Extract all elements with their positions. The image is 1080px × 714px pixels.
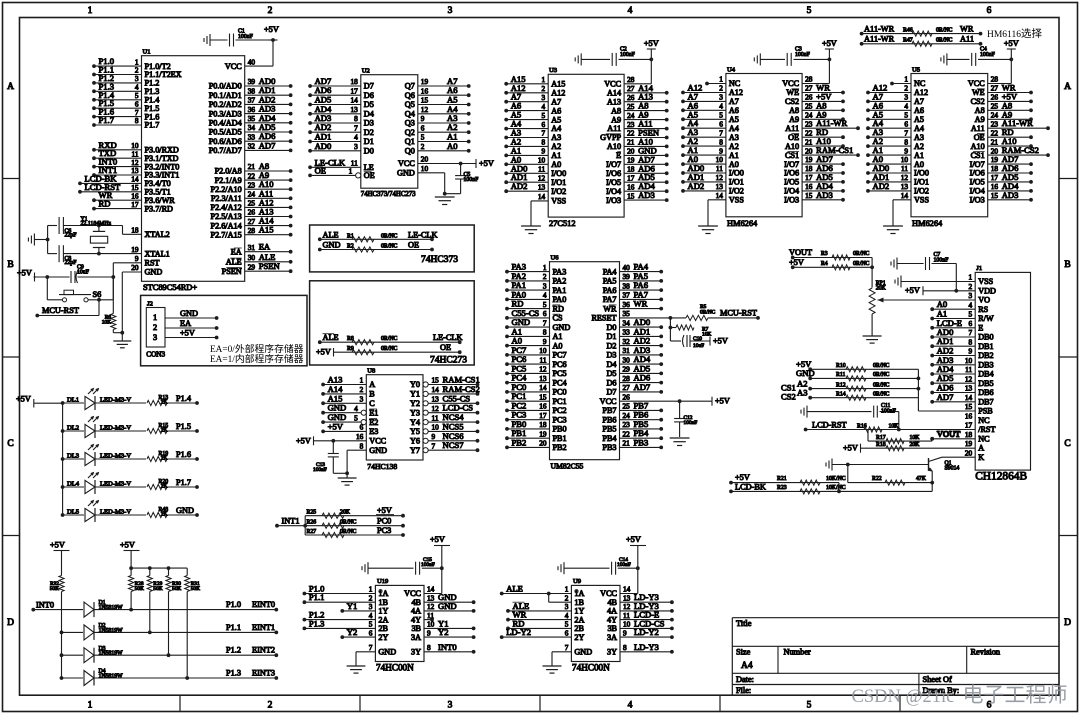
svg-text:16: 16 (539, 402, 547, 411)
svg-text:DB2: DB2 (978, 351, 993, 360)
svg-text:VCC: VCC (398, 159, 415, 168)
svg-text:1Y: 1Y (378, 607, 388, 616)
svg-text:I/O7: I/O7 (606, 160, 621, 169)
svg-text:WR: WR (960, 24, 974, 33)
svg-text:27: 27 (623, 383, 631, 392)
svg-text:34: 34 (248, 123, 256, 132)
svg-text:A0: A0 (447, 141, 458, 151)
svg-text:4: 4 (628, 6, 633, 16)
svg-text:GND: GND (574, 648, 592, 657)
svg-text:74HC373: 74HC373 (421, 255, 458, 265)
svg-text:6: 6 (904, 120, 908, 129)
svg-text:AD0: AD0 (315, 141, 332, 151)
svg-text:26: 26 (805, 93, 813, 102)
svg-text:12: 12 (965, 374, 973, 383)
svg-text:R22: R22 (872, 476, 882, 482)
svg-text:14: 14 (538, 192, 546, 201)
svg-text:0R/NC: 0R/NC (936, 27, 953, 33)
svg-text:S9014: S9014 (945, 466, 960, 472)
svg-text:EINT2: EINT2 (252, 646, 275, 655)
svg-text:2: 2 (904, 84, 908, 93)
svg-text:P0.6/AD6: P0.6/AD6 (209, 137, 242, 146)
svg-text:8: 8 (360, 441, 364, 450)
svg-text:R46: R46 (903, 27, 913, 33)
svg-text:100nF: 100nF (617, 562, 631, 568)
svg-text:P1.1: P1.1 (309, 592, 325, 602)
svg-text:AD7: AD7 (259, 140, 276, 150)
svg-text:P1.5: P1.5 (176, 422, 191, 431)
svg-text:+5V: +5V (17, 268, 32, 277)
svg-text:CS: CS (553, 314, 563, 323)
svg-text:Y2: Y2 (438, 627, 449, 637)
svg-text:7: 7 (354, 123, 358, 132)
svg-text:17: 17 (627, 173, 635, 182)
svg-text:4Y: 4Y (607, 615, 617, 624)
svg-text:MCU-RST: MCU-RST (42, 306, 79, 315)
svg-text:10: 10 (432, 423, 440, 432)
svg-text:A11: A11 (785, 124, 799, 133)
svg-text:7: 7 (565, 643, 569, 652)
svg-text:0R/NC: 0R/NC (381, 244, 398, 250)
svg-text:20: 20 (805, 146, 813, 155)
svg-text:4: 4 (543, 291, 547, 300)
svg-text:0R/NC: 0R/NC (340, 520, 357, 526)
svg-text:CS2: CS2 (781, 392, 796, 402)
svg-text:3: 3 (360, 395, 364, 404)
svg-text:23: 23 (805, 120, 813, 129)
svg-text:13: 13 (716, 182, 724, 191)
svg-text:Y5: Y5 (410, 427, 420, 436)
svg-text:38: 38 (248, 86, 256, 95)
svg-text:0R/NC: 0R/NC (873, 382, 890, 388)
svg-text:27: 27 (627, 84, 635, 93)
svg-text:A7: A7 (551, 97, 561, 106)
svg-text:36: 36 (248, 105, 256, 114)
svg-text:PA0: PA0 (553, 295, 567, 304)
svg-text:VCC: VCC (600, 397, 617, 406)
svg-text:A5: A5 (914, 115, 924, 124)
svg-text:I/O3: I/O3 (970, 196, 985, 205)
svg-text:6: 6 (369, 628, 373, 637)
svg-text:2: 2 (153, 323, 157, 332)
svg-text:A2: A2 (729, 142, 739, 151)
svg-text:VSS: VSS (729, 196, 744, 205)
svg-text:EA=0/: EA=0/ (210, 345, 235, 355)
svg-text:2Y: 2Y (574, 633, 584, 642)
svg-text:WE: WE (786, 88, 799, 97)
svg-text:P1.3: P1.3 (226, 669, 241, 678)
svg-text:OE: OE (788, 133, 799, 142)
svg-text:2B: 2B (574, 624, 584, 633)
svg-text:P0.7/AD7: P0.7/AD7 (209, 146, 242, 155)
svg-text:D5: D5 (606, 369, 616, 378)
svg-text:29: 29 (623, 365, 631, 374)
svg-text:0R/NC: 0R/NC (853, 251, 870, 257)
svg-text:Y2: Y2 (410, 399, 420, 408)
svg-text:1B: 1B (378, 598, 388, 607)
svg-text:0R/NC: 0R/NC (873, 363, 890, 369)
svg-text:12: 12 (539, 365, 547, 374)
svg-text:3B: 3B (411, 624, 421, 633)
svg-text:13: 13 (427, 593, 435, 602)
svg-text:R27: R27 (307, 529, 317, 535)
svg-text:A13: A13 (607, 97, 621, 106)
svg-text:9: 9 (432, 432, 436, 441)
svg-text:DB7: DB7 (978, 397, 993, 406)
svg-text:3: 3 (354, 142, 358, 151)
svg-text:AD7: AD7 (937, 392, 954, 402)
svg-text:0R/NC: 0R/NC (700, 309, 716, 315)
svg-text:R23: R23 (777, 485, 787, 491)
svg-text:18: 18 (351, 77, 359, 86)
svg-text:PA6: PA6 (603, 286, 617, 295)
svg-text:50K: 50K (191, 586, 200, 592)
svg-text:1: 1 (969, 273, 973, 282)
svg-text:6: 6 (421, 123, 425, 132)
svg-text:A12: A12 (551, 89, 565, 98)
svg-text:GND: GND (176, 506, 194, 515)
svg-text:5: 5 (354, 413, 358, 422)
svg-text:27: 27 (991, 84, 999, 93)
svg-text:10uF: 10uF (77, 270, 90, 276)
svg-text:A9: A9 (789, 115, 799, 124)
svg-text:Revision: Revision (971, 648, 1001, 657)
svg-text:22: 22 (805, 128, 813, 137)
svg-text:19: 19 (805, 155, 813, 164)
svg-text:3: 3 (153, 333, 157, 342)
svg-text:Q2: Q2 (405, 128, 415, 137)
svg-text:26: 26 (248, 208, 256, 217)
svg-text:P2.4/A12: P2.4/A12 (211, 203, 242, 212)
svg-text:PC4: PC4 (553, 378, 567, 387)
svg-text:5: 5 (369, 620, 373, 629)
svg-text:I/O5: I/O5 (970, 178, 985, 187)
svg-text:I/O2: I/O2 (551, 187, 566, 196)
svg-text:39: 39 (248, 77, 256, 86)
svg-text:I/O4: I/O4 (784, 187, 799, 196)
svg-text:9: 9 (623, 628, 627, 637)
svg-text:DB4: DB4 (978, 370, 993, 379)
svg-text:Q0: Q0 (405, 146, 415, 155)
svg-text:2: 2 (360, 385, 364, 394)
svg-text:39: 39 (623, 272, 631, 281)
svg-text:D: D (1064, 618, 1071, 628)
svg-text:+5V: +5V (377, 506, 392, 515)
svg-text:CSDN @21ic: CSDN @21ic (852, 687, 955, 707)
svg-text:OE: OE (440, 343, 451, 352)
svg-text:DB6: DB6 (978, 388, 993, 397)
svg-text:Q4: Q4 (405, 110, 415, 119)
svg-text:E: E (616, 151, 621, 160)
svg-text:E2: E2 (369, 418, 378, 427)
svg-text:10K: 10K (910, 435, 921, 441)
svg-text:P1.4: P1.4 (176, 394, 192, 403)
svg-text:P1.2: P1.2 (226, 646, 241, 655)
svg-text:Size: Size (736, 648, 751, 657)
svg-text:GND: GND (796, 368, 815, 378)
svg-text:EA: EA (231, 247, 242, 256)
svg-text:U19: U19 (377, 578, 389, 585)
svg-text:PA1: PA1 (553, 286, 567, 295)
svg-text:XTAL1: XTAL1 (145, 249, 170, 258)
svg-text:+5V: +5V (626, 535, 641, 544)
svg-text:20: 20 (627, 147, 635, 156)
svg-text:D2: D2 (364, 128, 374, 137)
svg-text:31: 31 (248, 243, 256, 252)
svg-text:14: 14 (965, 393, 973, 402)
svg-text:1: 1 (88, 6, 93, 16)
svg-text:14: 14 (427, 585, 435, 594)
svg-text:50K: 50K (50, 586, 59, 592)
svg-text:40: 40 (248, 57, 256, 66)
svg-text:17: 17 (991, 173, 999, 182)
svg-text:Y4: Y4 (410, 418, 420, 427)
svg-text:I/O0: I/O0 (914, 169, 929, 178)
svg-text:1N5819W: 1N5819W (99, 628, 124, 634)
svg-text:40: 40 (623, 263, 631, 272)
svg-text:GND: GND (378, 648, 396, 657)
svg-text:5: 5 (719, 111, 723, 120)
svg-text:GND: GND (438, 601, 457, 611)
svg-text:A9: A9 (611, 115, 621, 124)
svg-text:9: 9 (135, 254, 139, 263)
svg-text:23: 23 (623, 420, 631, 429)
svg-text:+5V: +5V (316, 347, 331, 356)
svg-text:23: 23 (991, 120, 999, 129)
svg-text:PB1: PB1 (553, 434, 567, 443)
svg-text:12: 12 (623, 602, 631, 611)
svg-text:20: 20 (991, 146, 999, 155)
svg-text:14: 14 (539, 383, 547, 392)
svg-text:5: 5 (543, 300, 547, 309)
svg-text:CON3: CON3 (146, 351, 165, 359)
svg-text:0R/NC: 0R/NC (936, 38, 953, 44)
svg-text:21: 21 (623, 439, 631, 448)
svg-text:A0: A0 (553, 341, 563, 350)
svg-text:10: 10 (539, 346, 547, 355)
svg-text:15: 15 (421, 96, 429, 105)
svg-text:PSEN: PSEN (222, 267, 242, 276)
svg-text:19: 19 (991, 155, 999, 164)
svg-text:A: A (978, 444, 984, 453)
svg-text:8: 8 (623, 643, 627, 652)
svg-text:K: K (978, 453, 984, 462)
svg-text:4B: 4B (607, 598, 617, 607)
svg-text:A4: A4 (729, 124, 739, 133)
svg-text:I/O2: I/O2 (729, 187, 744, 196)
svg-text:Q7: Q7 (405, 82, 415, 91)
svg-text:18: 18 (805, 164, 813, 173)
svg-text:5: 5 (542, 111, 546, 120)
svg-text:1: 1 (88, 701, 93, 711)
svg-text:PC3: PC3 (377, 526, 391, 535)
svg-text:EINT1: EINT1 (252, 623, 275, 632)
svg-text:J1: J1 (976, 265, 982, 272)
svg-text:1: 1 (360, 376, 364, 385)
svg-text:PC5: PC5 (553, 369, 567, 378)
svg-text:PA4: PA4 (603, 267, 617, 276)
svg-text:A11: A11 (960, 35, 974, 44)
svg-text:P1.7: P1.7 (99, 115, 115, 125)
svg-text:A3: A3 (729, 133, 739, 142)
svg-text:VSS: VSS (978, 277, 993, 286)
svg-text:13: 13 (965, 384, 973, 393)
svg-text:11: 11 (427, 611, 434, 620)
svg-text:10K: 10K (102, 320, 111, 326)
svg-text:21: 21 (805, 137, 813, 146)
svg-text:74HC273: 74HC273 (430, 356, 467, 366)
svg-text:I/O6: I/O6 (606, 169, 621, 178)
svg-text:19: 19 (539, 429, 547, 438)
svg-text:A15: A15 (259, 225, 274, 235)
svg-text:R21: R21 (777, 476, 787, 482)
svg-text:27: 27 (805, 84, 813, 93)
svg-text:Q5: Q5 (405, 100, 415, 109)
svg-text:0R/NC: 0R/NC (381, 336, 398, 342)
svg-text:D6: D6 (364, 91, 374, 100)
svg-text:VO: VO (978, 296, 990, 305)
svg-text:3: 3 (448, 6, 453, 16)
svg-text:DL1: DL1 (67, 397, 79, 404)
svg-text:4: 4 (719, 102, 723, 111)
svg-text:100nF: 100nF (464, 177, 480, 183)
svg-text:15: 15 (432, 376, 440, 385)
svg-text:38: 38 (623, 281, 631, 290)
svg-text:UM82C55: UM82C55 (551, 462, 584, 471)
svg-text:PC2: PC2 (553, 406, 567, 415)
svg-text:PC7: PC7 (553, 351, 567, 360)
svg-text:18: 18 (539, 420, 547, 429)
svg-text:100nF: 100nF (934, 258, 950, 264)
svg-text:6: 6 (987, 701, 992, 711)
svg-text:6: 6 (360, 423, 364, 432)
svg-text:VCC: VCC (600, 589, 617, 598)
svg-text:9: 9 (969, 347, 973, 356)
svg-text:29: 29 (248, 262, 256, 271)
svg-text:R18: R18 (876, 442, 886, 448)
svg-text:E3: E3 (369, 427, 378, 436)
svg-text:I/O1: I/O1 (729, 178, 744, 187)
svg-text:17: 17 (965, 421, 973, 430)
svg-text:NCS7: NCS7 (443, 440, 465, 450)
svg-text:P2.2/A10: P2.2/A10 (211, 185, 242, 194)
svg-text:6: 6 (719, 120, 723, 129)
svg-text:22: 22 (623, 429, 631, 438)
svg-text:7: 7 (904, 128, 908, 137)
svg-text:GND: GND (397, 169, 415, 178)
svg-text:0R/NC: 0R/NC (853, 261, 870, 267)
svg-text:VCC: VCC (604, 80, 621, 89)
svg-text:A7: A7 (729, 97, 739, 106)
svg-text:D: D (7, 618, 14, 628)
svg-text:21: 21 (991, 137, 999, 146)
svg-text:2A: 2A (574, 615, 584, 624)
svg-text:Y1: Y1 (347, 601, 358, 611)
svg-text:5: 5 (904, 111, 908, 120)
svg-text:U1: U1 (143, 49, 151, 56)
svg-text:A2: A2 (551, 142, 561, 151)
svg-text:A4: A4 (914, 124, 924, 133)
svg-text:28: 28 (991, 75, 999, 84)
svg-text:I/O4: I/O4 (606, 187, 621, 196)
svg-text:VCC: VCC (782, 79, 799, 88)
svg-text:B: B (7, 260, 13, 270)
svg-text:17: 17 (539, 411, 547, 420)
svg-text:100nF: 100nF (881, 409, 897, 415)
svg-text:OE: OE (974, 133, 985, 142)
svg-text:19: 19 (131, 245, 139, 254)
svg-text:2: 2 (268, 701, 273, 711)
svg-text:PC6: PC6 (553, 360, 567, 369)
svg-text:AD2: AD2 (873, 181, 890, 191)
svg-text:1: 1 (369, 585, 373, 594)
svg-text:A0: A0 (551, 160, 561, 169)
svg-text:I/O3: I/O3 (606, 196, 621, 205)
svg-text:A11: A11 (971, 124, 985, 133)
svg-text:74HC00N: 74HC00N (376, 663, 414, 673)
svg-text:/RST: /RST (978, 425, 995, 434)
svg-text:+5V: +5V (16, 395, 31, 404)
svg-text:2A: 2A (378, 615, 388, 624)
svg-text:D6: D6 (606, 378, 616, 387)
svg-text:13: 13 (623, 593, 631, 602)
svg-text:25: 25 (805, 102, 813, 111)
svg-text:VCC: VCC (369, 437, 386, 446)
svg-text:GND: GND (180, 309, 198, 318)
svg-text:12: 12 (901, 173, 909, 182)
svg-text:14: 14 (716, 191, 724, 200)
svg-text:P2.1/A9: P2.1/A9 (215, 176, 242, 185)
svg-text:EINT0: EINT0 (252, 600, 275, 609)
svg-text:10: 10 (421, 164, 429, 173)
svg-text:AD3: AD3 (638, 190, 655, 200)
svg-text:J2: J2 (147, 301, 153, 308)
svg-text:I/O7: I/O7 (784, 160, 799, 169)
svg-text:7: 7 (969, 328, 973, 337)
svg-text:+5V: +5V (715, 397, 730, 406)
svg-text:14: 14 (432, 385, 440, 394)
svg-text:+5V: +5V (430, 535, 445, 544)
svg-text:10K/NC: 10K/NC (826, 485, 846, 491)
svg-text:XTAL2: XTAL2 (145, 230, 170, 239)
svg-text:PB2: PB2 (512, 437, 527, 447)
svg-text:32: 32 (623, 337, 631, 346)
svg-text:1: 1 (542, 75, 546, 84)
svg-text:9: 9 (719, 146, 723, 155)
svg-text:PC0: PC0 (377, 517, 391, 526)
svg-text:ALE: ALE (506, 584, 523, 594)
svg-text:2: 2 (421, 142, 425, 151)
svg-text:26: 26 (991, 93, 999, 102)
svg-text:R26: R26 (307, 520, 317, 526)
svg-text:I/O6: I/O6 (970, 169, 985, 178)
svg-text:19: 19 (421, 77, 429, 86)
svg-text:DB1: DB1 (978, 342, 993, 351)
svg-text:12: 12 (538, 173, 546, 182)
svg-text:3Y: 3Y (411, 648, 421, 657)
svg-text:7: 7 (719, 128, 723, 137)
svg-text:Y3: Y3 (410, 408, 420, 417)
svg-text:PB4: PB4 (602, 434, 616, 443)
svg-text:11: 11 (901, 164, 908, 173)
svg-text:+5V: +5V (50, 541, 65, 550)
svg-text:A: A (369, 380, 375, 389)
svg-text:3A: 3A (607, 633, 617, 642)
svg-text:GND: GND (369, 446, 387, 455)
svg-text:D0: D0 (606, 323, 616, 332)
svg-text:25: 25 (248, 199, 256, 208)
svg-text:LED-M3-V: LED-M3-V (100, 397, 131, 404)
